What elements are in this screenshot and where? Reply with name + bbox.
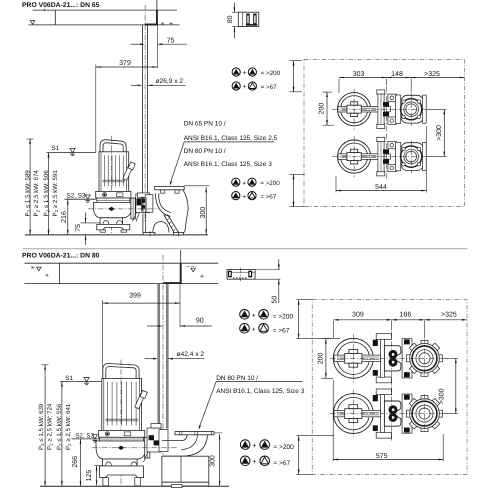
svg-text:303: 303 bbox=[353, 71, 365, 78]
svg-text:P2 ≤ 1,5 kW: 556: P2 ≤ 1,5 kW: 556 bbox=[56, 403, 63, 450]
svg-text:>300: >300 bbox=[439, 388, 446, 404]
svg-text:P2 ≤ 1,5 kW: 639: P2 ≤ 1,5 kW: 639 bbox=[38, 403, 45, 450]
svg-text:P2 ≥ 2,5 kW: 591: P2 ≥ 2,5 kW: 591 bbox=[52, 170, 59, 217]
svg-text:= >200: = >200 bbox=[273, 444, 294, 451]
svg-text:216: 216 bbox=[61, 211, 68, 223]
svg-text:= >67: = >67 bbox=[273, 328, 290, 335]
svg-text:379: 379 bbox=[119, 60, 131, 67]
svg-text:P2 ≥ 2,5 kW: 674: P2 ≥ 2,5 kW: 674 bbox=[33, 170, 40, 217]
svg-text:266: 266 bbox=[72, 456, 79, 468]
svg-text:+: + bbox=[242, 194, 246, 201]
svg-text:575: 575 bbox=[376, 453, 388, 460]
svg-text:DN 80 PN 10 /: DN 80 PN 10 / bbox=[216, 375, 258, 382]
svg-text:90: 90 bbox=[196, 317, 204, 324]
svg-text:>325: >325 bbox=[441, 312, 457, 319]
svg-text:80: 80 bbox=[227, 15, 234, 23]
svg-text:166: 166 bbox=[400, 312, 412, 319]
svg-text:544: 544 bbox=[375, 184, 387, 191]
svg-text:75: 75 bbox=[167, 38, 175, 45]
svg-text:+: + bbox=[252, 313, 256, 320]
svg-text:ø42,4 x 2: ø42,4 x 2 bbox=[177, 351, 205, 358]
svg-text:ANSI B16.1, Class 125, Size 2,: ANSI B16.1, Class 125, Size 2,5 bbox=[184, 135, 278, 142]
svg-text:ø26,9 x 2: ø26,9 x 2 bbox=[156, 78, 184, 85]
svg-text:DN 65 PN 10 /: DN 65 PN 10 / bbox=[184, 120, 226, 127]
svg-text:>300: >300 bbox=[436, 125, 443, 141]
svg-text:+: + bbox=[243, 70, 247, 77]
svg-text:S1: S1 bbox=[52, 145, 60, 152]
svg-text:P2 ≥ 2,5 kW: 724: P2 ≥ 2,5 kW: 724 bbox=[46, 403, 53, 450]
svg-text:PRO V06DA-21...: DN 65: PRO V06DA-21...: DN 65 bbox=[22, 2, 100, 9]
svg-text:= >67: = >67 bbox=[273, 460, 290, 467]
svg-text:= >200: = >200 bbox=[261, 70, 281, 77]
svg-text:P2 ≥ 2,5 kW: 641: P2 ≥ 2,5 kW: 641 bbox=[65, 403, 72, 450]
svg-text:+: + bbox=[252, 443, 256, 450]
svg-text:200: 200 bbox=[317, 352, 324, 364]
svg-text:= >67: = >67 bbox=[260, 193, 277, 200]
svg-text:148: 148 bbox=[391, 71, 403, 78]
svg-text:ANSI B16.1, Class 125, Size 3: ANSI B16.1, Class 125, Size 3 bbox=[184, 161, 273, 168]
svg-text:DN 80 PN 10 /: DN 80 PN 10 / bbox=[184, 148, 226, 155]
svg-text:399: 399 bbox=[129, 293, 141, 300]
svg-text:P2 ≤ 1,5 kW: 506: P2 ≤ 1,5 kW: 506 bbox=[43, 170, 50, 217]
svg-text:+: + bbox=[252, 327, 256, 334]
svg-text:300: 300 bbox=[210, 455, 217, 467]
svg-text:309: 309 bbox=[352, 312, 364, 319]
svg-text:+: + bbox=[243, 84, 247, 91]
svg-text:200: 200 bbox=[318, 103, 325, 115]
svg-text:= >200: = >200 bbox=[260, 180, 280, 187]
svg-text:S2, S3: S2, S3 bbox=[75, 433, 94, 440]
svg-text:300: 300 bbox=[200, 207, 207, 219]
svg-text:S2, S3: S2, S3 bbox=[67, 193, 86, 200]
svg-text:>325: >325 bbox=[424, 71, 440, 78]
svg-text:50: 50 bbox=[271, 296, 278, 304]
svg-text:PRO V06DA-21...: DN 80: PRO V06DA-21...: DN 80 bbox=[22, 253, 100, 260]
svg-text:125: 125 bbox=[86, 470, 93, 482]
svg-text:+: + bbox=[242, 180, 246, 187]
svg-text:= >67: = >67 bbox=[261, 84, 278, 91]
svg-text:S1: S1 bbox=[65, 375, 73, 382]
svg-text:+: + bbox=[252, 459, 256, 466]
svg-text:ANSI B16.1, Class 125, Size 3: ANSI B16.1, Class 125, Size 3 bbox=[216, 388, 305, 395]
svg-text:P2 ≤ 1,5 kW: 589: P2 ≤ 1,5 kW: 589 bbox=[24, 170, 31, 217]
svg-text:75: 75 bbox=[75, 224, 82, 232]
svg-text:= >200: = >200 bbox=[273, 314, 294, 321]
